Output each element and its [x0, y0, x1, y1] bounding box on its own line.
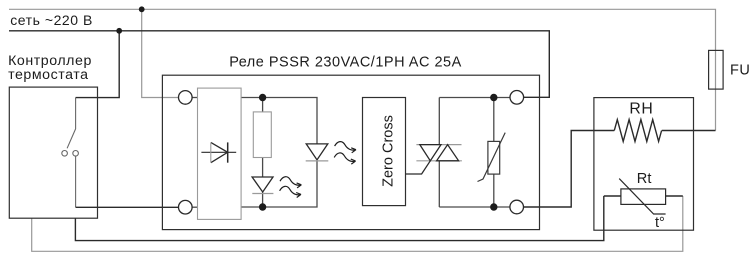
svg-text:термостата: термостата	[8, 67, 89, 83]
svg-text:Zero Cross: Zero Cross	[380, 115, 396, 187]
svg-text:t°: t°	[655, 215, 665, 231]
svg-text:Rt: Rt	[637, 171, 652, 187]
svg-text:Реле PSSR 230VAC/1PH AC 25A: Реле PSSR 230VAC/1PH AC 25A	[229, 54, 462, 70]
svg-text:RH: RH	[629, 100, 653, 117]
svg-text:сеть ~220 В: сеть ~220 В	[10, 12, 93, 28]
svg-text:FU: FU	[730, 63, 750, 79]
